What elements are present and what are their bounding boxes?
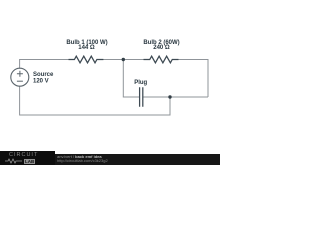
node junction dot top	[122, 58, 125, 61]
node junction dot bottom	[168, 95, 171, 98]
resistor R2 (Bulb 2)	[144, 56, 179, 63]
wire plug branch right segment	[148, 96, 208, 98]
svg-text:120 V: 120 V	[33, 79, 49, 85]
svg-text:240 Ω: 240 Ω	[153, 45, 170, 51]
wire top rail between node and R2	[123, 59, 143, 61]
wire return: junction down and bottom rail	[20, 86, 170, 115]
CircuitLab logo box	[0, 151, 55, 166]
logo LAB text	[24, 159, 35, 164]
resistor R1 (Bulb 1)	[69, 56, 104, 63]
wire node drop to plug branch	[123, 60, 134, 98]
wire top rail right segment and right vertical	[179, 60, 209, 98]
source plus sign	[17, 71, 23, 77]
svg-text:Plug: Plug	[134, 80, 147, 86]
watermark bar	[0, 154, 220, 165]
capacitor (Plug) plates	[135, 96, 149, 98]
source V1 circle	[11, 68, 29, 86]
logo zigzag	[5, 158, 23, 164]
watermark url line 1	[57, 154, 102, 159]
svg-text:144 Ω: 144 Ω	[78, 45, 95, 51]
watermark url line 2	[57, 158, 108, 163]
wire top rail left segment	[20, 60, 69, 69]
logo CIRCUIT text	[9, 152, 38, 158]
wire top rail between R1 and node	[103, 59, 123, 61]
source minus sign	[17, 80, 23, 82]
svg-text:Source: Source	[33, 72, 54, 78]
